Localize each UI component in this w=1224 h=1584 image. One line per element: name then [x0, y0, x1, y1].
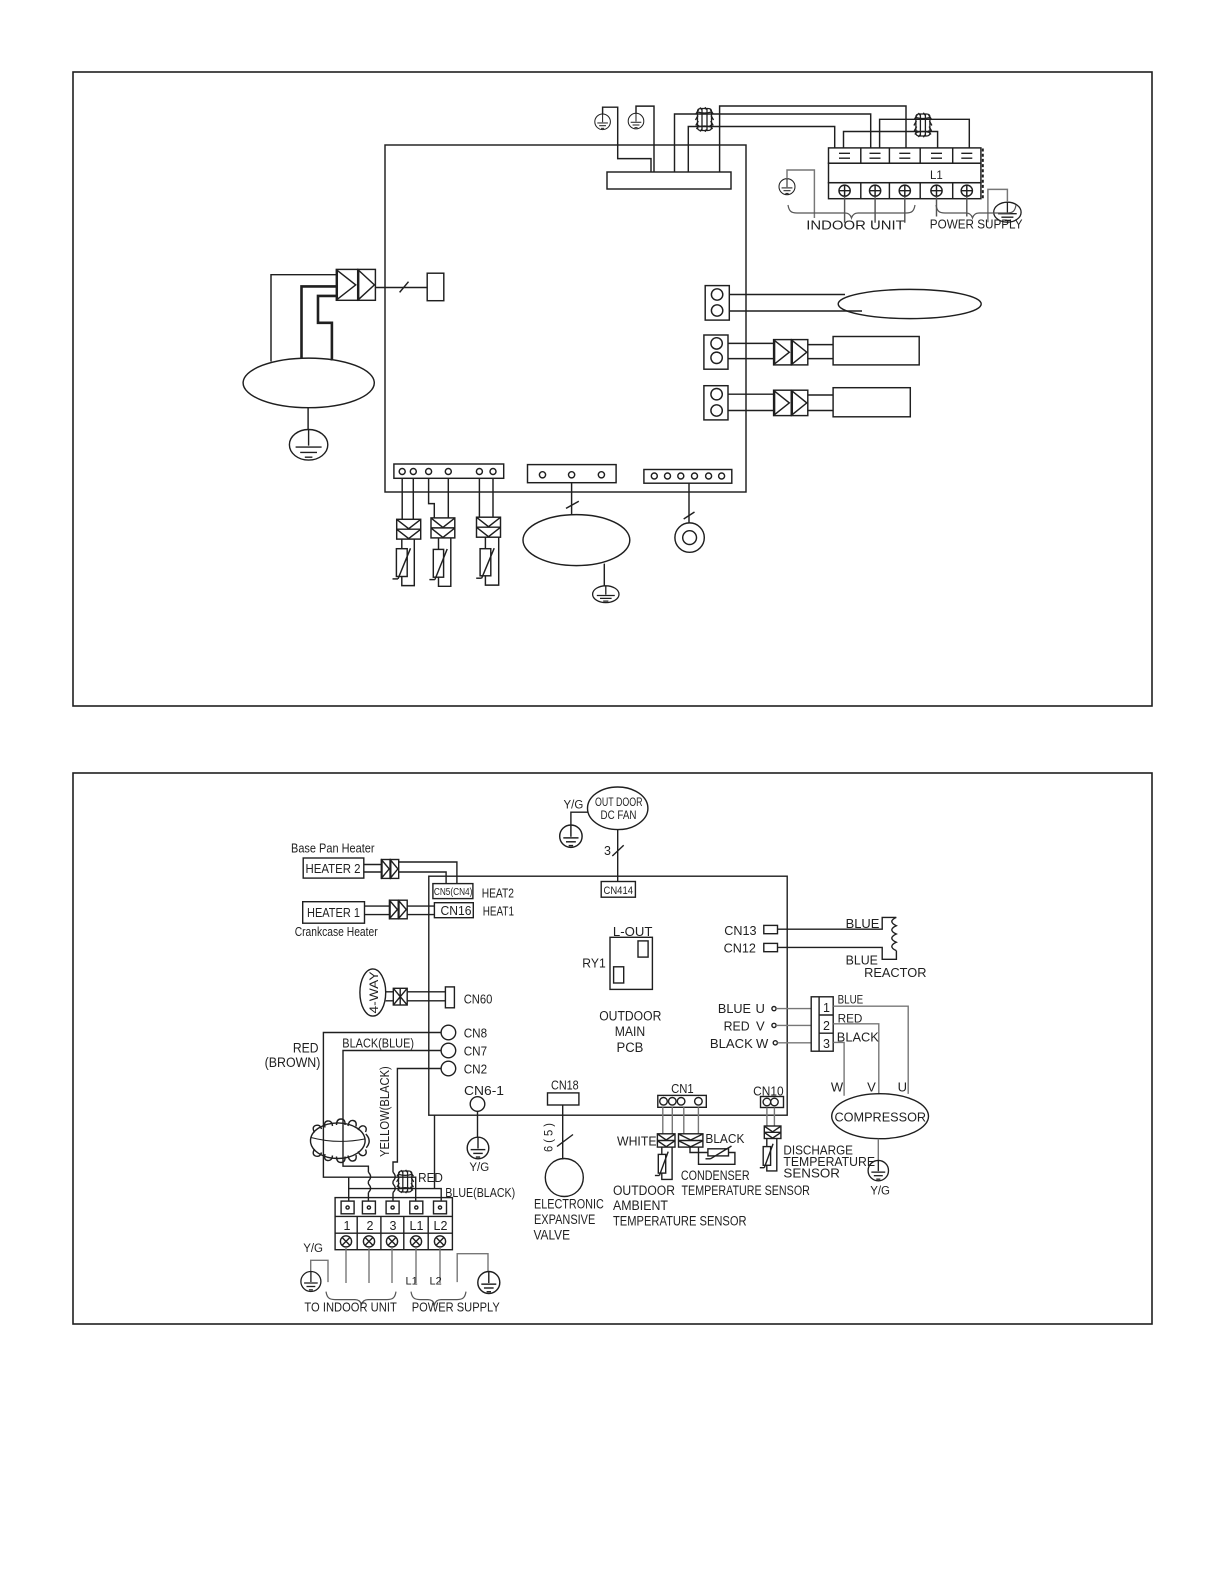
- svg-text:V: V: [867, 1080, 876, 1095]
- svg-text:WHITE: WHITE: [617, 1134, 657, 1149]
- svg-text:PCB: PCB: [617, 1040, 644, 1055]
- wires from TB1 down to indoor unit: [845, 196, 905, 222]
- wires CN1 to sensor plugs: [663, 1107, 699, 1134]
- 4-way valve ellipse: [360, 969, 386, 1016]
- svg-text:HEAT1: HEAT1: [483, 904, 514, 918]
- label OUTDOOR MAIN PCB: [599, 1009, 661, 1055]
- ground symbol G5: [289, 430, 327, 461]
- plug connector P5: [431, 518, 455, 538]
- svg-text:MAIN: MAIN: [615, 1024, 646, 1039]
- svg-text:Y/G: Y/G: [870, 1186, 890, 1198]
- svg-text:OUTDOOR: OUTDOOR: [599, 1009, 661, 1024]
- svg-text:EXPANSIVE: EXPANSIVE: [534, 1212, 595, 1227]
- wire CN12 to reactor: [778, 947, 897, 959]
- terminal block TB1 bottom row with screw terminals: [829, 149, 983, 199]
- svg-text:4-WAY: 4-WAY: [367, 972, 381, 1014]
- labels L1 L2 below: [406, 1275, 442, 1287]
- connector CN13: [724, 924, 777, 938]
- wires HEATER2 to plug: [364, 865, 382, 873]
- wire RED(BROWN) CN8 to terminal pin1: [323, 1033, 441, 1202]
- wire P1 to fan motor (lead 1): [271, 275, 336, 362]
- svg-text:BLUE: BLUE: [838, 993, 864, 1007]
- svg-text:BLUE(BLACK): BLUE(BLACK): [445, 1185, 515, 1200]
- ground TB2 right: [478, 1272, 500, 1294]
- wires HEATER1 to plug: [365, 906, 390, 915]
- wire CN13 to reactor: [778, 917, 897, 929]
- svg-text:AMBIENT: AMBIENT: [613, 1198, 668, 1213]
- connector CN7: [441, 1043, 487, 1058]
- plug BLACK: [679, 1134, 703, 1147]
- wire w1 header to terminal cell2: [675, 114, 871, 172]
- terminal block 1-2-3: [811, 997, 833, 1051]
- wire BLACK(BLUE) CN7 to terminal pin2: [343, 1051, 441, 1202]
- label CONDENSER TEMPERATURE SENSOR: [681, 1168, 810, 1198]
- plug connector P1: [336, 269, 375, 300]
- svg-text:Y/G: Y/G: [469, 1162, 489, 1174]
- plug connector P4: [397, 519, 421, 539]
- header connector on PCB top: [607, 172, 731, 189]
- plug discharge sensor: [764, 1126, 781, 1139]
- plug connector 4-way: [393, 988, 407, 1005]
- wires CN10 to plug: [767, 1108, 775, 1127]
- svg-text:ELECTRONIC: ELECTRONIC: [534, 1197, 604, 1212]
- brace POWER SUPPLY: [936, 205, 1016, 218]
- svg-text:Crankcase Heater: Crankcase Heater: [295, 925, 378, 939]
- brace INDOOR UNIT: [788, 205, 915, 218]
- connector CN414: [601, 882, 635, 898]
- label DISCHARGE TEMPERATURE SENSOR: [783, 1143, 875, 1181]
- wire to right ground: [457, 1254, 488, 1282]
- motor M2: [838, 289, 981, 318]
- svg-text:Y/G: Y/G: [564, 799, 584, 811]
- wire to left ground: [311, 1260, 328, 1282]
- wire P1 to fan motor (lead 3 thick): [318, 296, 336, 361]
- wire terminal1 to compressor U: [833, 1006, 908, 1094]
- wire M1 to ground G5: [307, 408, 309, 429]
- svg-text:L1: L1: [410, 1219, 424, 1233]
- frame border diagram 2: [73, 773, 1152, 1324]
- ground symbol G6: [593, 586, 619, 603]
- svg-text:TO INDOOR UNIT: TO INDOOR UNIT: [304, 1300, 397, 1314]
- ground symbol G2: [628, 113, 644, 129]
- pin W with label BLACK W: [710, 1036, 778, 1051]
- relay RY1: [610, 937, 652, 989]
- connector CN12: [724, 941, 778, 955]
- motor M3: [523, 515, 630, 566]
- thermistor discharge: [760, 1139, 777, 1171]
- wires plug to CN16: [407, 906, 434, 915]
- connector CN16: [434, 903, 473, 918]
- ground Y/G below CN6-1: [467, 1137, 489, 1159]
- svg-text:L1: L1: [930, 170, 943, 182]
- ground TB2 left: [301, 1272, 321, 1292]
- connector CN-A (6 hole) on PCB bottom: [394, 464, 504, 478]
- outdoor main PCB outline: [429, 876, 787, 1115]
- electronic expansive valve circle: [545, 1159, 583, 1197]
- plug connector P6: [477, 517, 501, 537]
- wire YELLOW(BLACK) CN2 to terminal pin3: [393, 1069, 441, 1202]
- svg-text:POWER SUPPLY: POWER SUPPLY: [412, 1300, 501, 1314]
- svg-text:TEMPERATURE SENSOR: TEMPERATURE SENSOR: [682, 1183, 811, 1198]
- ferrite core FC2: [914, 113, 932, 138]
- svg-text:VALVE: VALVE: [534, 1228, 571, 1243]
- svg-text:HEAT2: HEAT2: [482, 886, 514, 900]
- reactor coil: [892, 917, 897, 950]
- wire w5 terminal cell1 to cell4: [844, 132, 938, 148]
- wires from TB1 down to power supply: [937, 196, 967, 216]
- wire terminal3 to compressor W: [833, 1042, 844, 1095]
- wires P2 to component R2: [808, 345, 833, 359]
- wire w2 header to terminal cell1: [688, 127, 834, 173]
- wire from G1 to header: [603, 107, 651, 172]
- wire fan to CN414 with slash: [617, 830, 619, 882]
- ground symbol G4: [994, 202, 1021, 222]
- wires CN-A to plug P4: [402, 478, 413, 519]
- wire CN6-1 to ground: [477, 1111, 479, 1137]
- svg-text:L-OUT: L-OUT: [613, 924, 653, 939]
- svg-text:OUT DOOR: OUT DOOR: [595, 797, 643, 809]
- connector CN-C (6 hole): [644, 470, 732, 484]
- svg-text:2: 2: [823, 1019, 830, 1033]
- brace TO INDOOR UNIT: [326, 1292, 396, 1305]
- svg-text:SENSOR: SENSOR: [783, 1165, 840, 1180]
- wire CN-C to ring sensor with break slash: [688, 483, 690, 523]
- ring sensor (double circle): [675, 523, 704, 552]
- svg-text:INDOOR UNIT: INDOOR UNIT: [806, 217, 904, 232]
- svg-text:CN414: CN414: [604, 885, 634, 897]
- wire to G4: [988, 189, 1008, 222]
- connector J2: [704, 335, 728, 369]
- wires P3 to component R3: [808, 395, 833, 411]
- svg-text:1: 1: [823, 1001, 830, 1015]
- plug connector heater2: [381, 860, 398, 879]
- wires J3 to plug P3: [728, 394, 774, 410]
- connector CN2: [441, 1061, 487, 1076]
- svg-text:Y/G: Y/G: [303, 1243, 323, 1255]
- svg-text:6 ( 5 ): 6 ( 5 ): [544, 1123, 556, 1152]
- svg-text:HEATER 1: HEATER 1: [307, 905, 360, 920]
- svg-text:W: W: [831, 1080, 844, 1095]
- wire w3 header to terminal cell3: [720, 106, 906, 172]
- wires CN-A to plug P6: [479, 478, 493, 517]
- svg-text:BLUE: BLUE: [846, 917, 880, 931]
- hop of pin2 wire over RED wire: [368, 1172, 370, 1192]
- svg-text:CN60: CN60: [464, 992, 493, 1006]
- compressor ellipse: [832, 1094, 929, 1139]
- labels W V U: [831, 1080, 907, 1095]
- svg-text:RED: RED: [724, 1018, 750, 1033]
- connector CN1: [658, 1082, 707, 1107]
- wire P1 to fan motor (lead 2 thick): [302, 286, 337, 359]
- svg-text:CN1: CN1: [671, 1082, 694, 1096]
- hops of pin3 wire over RED and BLUE wires: [393, 1172, 395, 1192]
- connector CN18: [548, 1078, 579, 1105]
- terminal block TB1 top row: [829, 148, 981, 163]
- svg-text:BLACK(BLUE): BLACK(BLUE): [342, 1036, 414, 1051]
- connector CN10: [753, 1085, 784, 1108]
- svg-text:3: 3: [604, 844, 611, 858]
- ground symbol G1: [595, 114, 611, 130]
- label RED (BROWN): [265, 1040, 321, 1069]
- svg-text:CN12: CN12: [724, 941, 756, 955]
- wire from G2 to header: [636, 106, 654, 172]
- svg-text:CN8: CN8: [464, 1027, 487, 1041]
- ferrite core FC1: [696, 107, 714, 132]
- svg-text:YELLOW(BLACK): YELLOW(BLACK): [377, 1066, 392, 1157]
- heater HEATER 2 box: [303, 858, 364, 878]
- svg-text:L1: L1: [406, 1275, 418, 1287]
- wire w4 terminal cell2 to cell5: [880, 119, 970, 148]
- outdoor dc fan ellipse: [588, 787, 648, 830]
- brace POWER SUPPLY: [411, 1292, 466, 1305]
- wires TB2 down: [346, 1247, 440, 1283]
- svg-text:CN18: CN18: [551, 1078, 579, 1092]
- svg-text:L2: L2: [434, 1219, 448, 1233]
- ground outdoor fan: [560, 825, 582, 847]
- connector CN6-1: [464, 1084, 504, 1111]
- wires 4-way to CN60: [386, 992, 446, 1001]
- svg-text:CN16: CN16: [441, 904, 472, 918]
- svg-text:HEATER 2: HEATER 2: [306, 861, 361, 876]
- toroid line filter transformer: [311, 1119, 370, 1163]
- label OUTDOOR AMBIENT TEMPERATURE SENSOR: [613, 1183, 747, 1229]
- plug connector P3: [774, 390, 808, 415]
- wire M3 to ground G6: [603, 564, 605, 587]
- svg-text:W: W: [756, 1036, 769, 1051]
- svg-text:U: U: [756, 1001, 765, 1016]
- svg-text:3: 3: [390, 1219, 397, 1233]
- svg-text:V: V: [756, 1018, 765, 1033]
- fan motor M1: [243, 358, 374, 408]
- wires J2 to plug P2: [728, 343, 774, 358]
- svg-text:RY1: RY1: [582, 957, 605, 971]
- connector CN8: [441, 1025, 487, 1040]
- connector CN-B (3 hole): [528, 465, 617, 483]
- ground compressor: [868, 1160, 888, 1180]
- component R1: [427, 273, 444, 301]
- label ELECTRONIC EXPANSIVE VALVE: [534, 1197, 604, 1243]
- svg-text:BLACK: BLACK: [705, 1131, 744, 1146]
- wire ground to fan: [571, 812, 588, 825]
- wire CN-A hole3 jog to plug P5: [429, 478, 435, 518]
- wire CN-B to motor M3 with break slash: [571, 483, 573, 515]
- svg-text:U: U: [898, 1080, 907, 1095]
- thermistor TH1: [393, 539, 415, 586]
- svg-text:BLACK: BLACK: [710, 1036, 753, 1051]
- wire BLUE(BLACK) from PCB to terminal pin L2: [349, 1115, 442, 1201]
- svg-text:1: 1: [344, 1219, 351, 1233]
- ferrite core line filter: [397, 1170, 414, 1193]
- svg-text:3: 3: [823, 1037, 830, 1051]
- frame border diagram 1: [73, 72, 1152, 706]
- wires U V W to terminal 1-2-3: [776, 1009, 811, 1043]
- terminal block TB2: [335, 1198, 452, 1250]
- svg-text:DC FAN: DC FAN: [601, 810, 637, 822]
- terminal block TB1 middle band: [829, 163, 981, 183]
- wire compressor to ground: [877, 1139, 879, 1161]
- wire P1 to R1 with break slash: [375, 287, 427, 289]
- svg-text:Base Pan Heater: Base Pan Heater: [291, 842, 375, 856]
- svg-text:RED: RED: [418, 1170, 443, 1185]
- svg-text:REACTOR: REACTOR: [864, 965, 926, 980]
- connector CN60: [445, 987, 492, 1008]
- svg-text:POWER SUPPLY: POWER SUPPLY: [930, 216, 1023, 231]
- svg-text:CN2: CN2: [464, 1063, 487, 1077]
- thermistor condenser (horizontal): [690, 1146, 735, 1164]
- svg-text:CN6-1: CN6-1: [464, 1084, 504, 1098]
- connector J1: [705, 286, 729, 321]
- pin U with label BLUE U: [718, 1001, 776, 1016]
- svg-text:CN13: CN13: [724, 924, 756, 938]
- plug connector P2: [774, 340, 808, 365]
- wire from G3: [787, 170, 814, 218]
- svg-text:OUTDOOR: OUTDOOR: [613, 1183, 675, 1198]
- svg-text:BLUE: BLUE: [718, 1001, 751, 1016]
- svg-text:TEMPERATURE SENSOR: TEMPERATURE SENSOR: [613, 1213, 747, 1228]
- connector CN5(CN4): [433, 884, 473, 899]
- thermistor TH2: [429, 538, 450, 586]
- plug WHITE: [657, 1134, 675, 1147]
- ground symbol G3: [779, 179, 795, 195]
- component R2: [833, 337, 919, 365]
- svg-text:(BROWN): (BROWN): [265, 1055, 321, 1070]
- svg-text:2: 2: [367, 1219, 374, 1233]
- wire terminal2 to compressor V: [833, 1024, 879, 1094]
- wire CN-A hole4 to plug P5: [447, 478, 449, 518]
- svg-text:CN7: CN7: [464, 1045, 487, 1059]
- indoor main PCB outline: [385, 145, 746, 492]
- svg-text:CONDENSER: CONDENSER: [681, 1168, 750, 1183]
- wires J1 to motor M2: [729, 295, 862, 312]
- heater HEATER 1 box: [303, 902, 365, 924]
- thermistor outdoor ambient: [655, 1147, 672, 1179]
- svg-text:COMPRESSOR: COMPRESSOR: [835, 1109, 927, 1124]
- pin V with label RED V: [724, 1018, 777, 1033]
- svg-text:RED: RED: [293, 1040, 319, 1055]
- component R3: [833, 388, 910, 417]
- svg-text:CN5(CN4): CN5(CN4): [434, 887, 473, 898]
- connector J3: [704, 386, 728, 420]
- thermistor TH3: [476, 537, 499, 585]
- wire CN18 to expansion valve with slash: [562, 1105, 564, 1160]
- wires plug to CN5: [399, 862, 457, 884]
- plug connector heater1: [389, 900, 407, 919]
- svg-text:L2: L2: [430, 1275, 442, 1287]
